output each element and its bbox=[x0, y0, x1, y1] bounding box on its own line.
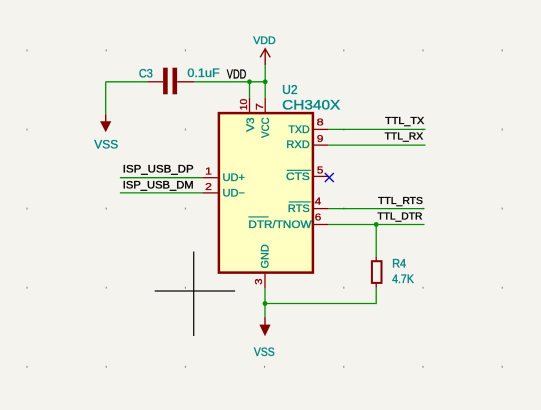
svg-text:U2: U2 bbox=[282, 83, 298, 97]
svg-text:V3: V3 bbox=[245, 117, 257, 131]
svg-text:6: 6 bbox=[315, 212, 322, 223]
svg-text:ISP_USB_DM: ISP_USB_DM bbox=[123, 179, 194, 191]
svg-text:TTL_RTS: TTL_RTS bbox=[378, 196, 423, 207]
svg-text:R4: R4 bbox=[392, 257, 406, 271]
svg-text:GND: GND bbox=[260, 244, 272, 268]
svg-text:0.1uF: 0.1uF bbox=[187, 66, 219, 80]
svg-text:VDD: VDD bbox=[227, 67, 247, 82]
svg-text:UD+: UD+ bbox=[223, 172, 246, 184]
svg-text:4: 4 bbox=[315, 197, 322, 208]
svg-text:8: 8 bbox=[317, 118, 325, 129]
svg-text:DTR/TNOW: DTR/TNOW bbox=[248, 219, 312, 231]
svg-text:CTS: CTS bbox=[286, 171, 310, 183]
svg-text:C3: C3 bbox=[139, 67, 153, 81]
svg-text:UD−: UD− bbox=[223, 187, 246, 199]
svg-text:TXD: TXD bbox=[288, 124, 310, 136]
svg-text:CH340X: CH340X bbox=[282, 98, 340, 113]
svg-text:RXD: RXD bbox=[286, 139, 310, 151]
svg-text:TTL_DTR: TTL_DTR bbox=[377, 212, 422, 223]
svg-text:VSS: VSS bbox=[94, 138, 118, 152]
svg-text:10: 10 bbox=[239, 98, 250, 110]
svg-text:9: 9 bbox=[317, 134, 324, 145]
svg-text:7: 7 bbox=[255, 103, 266, 111]
svg-text:1: 1 bbox=[205, 167, 212, 178]
svg-text:TTL_TX: TTL_TX bbox=[385, 116, 424, 127]
svg-text:TTL_RX: TTL_RX bbox=[385, 132, 424, 143]
svg-text:2: 2 bbox=[205, 182, 212, 193]
svg-text:ISP_USB_DP: ISP_USB_DP bbox=[123, 164, 194, 176]
svg-text:4.7K: 4.7K bbox=[392, 272, 414, 286]
svg-text:VDD: VDD bbox=[253, 35, 276, 47]
svg-text:VSS: VSS bbox=[254, 345, 275, 359]
svg-text:3: 3 bbox=[254, 278, 265, 285]
svg-text:5: 5 bbox=[317, 166, 324, 177]
svg-text:VCC: VCC bbox=[260, 117, 272, 138]
svg-text:RTS: RTS bbox=[288, 203, 310, 215]
